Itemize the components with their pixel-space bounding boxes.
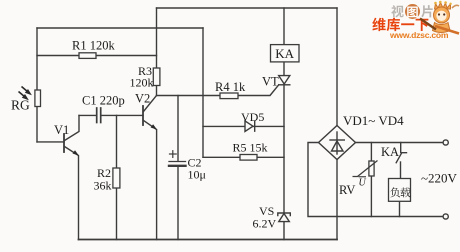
svg-text:6.2V: 6.2V (253, 217, 277, 231)
svg-text:U: U (359, 178, 367, 189)
svg-text:RV: RV (339, 183, 355, 197)
svg-text:R4 1k: R4 1k (215, 80, 246, 94)
svg-text:VD1~ VD4: VD1~ VD4 (343, 113, 404, 128)
svg-text:V2: V2 (135, 92, 150, 106)
svg-text:R5 15k: R5 15k (233, 141, 268, 155)
svg-text:RG: RG (11, 98, 30, 113)
svg-text:10μ: 10μ (188, 168, 206, 182)
svg-text:V1: V1 (54, 123, 69, 137)
svg-text:120k: 120k (130, 76, 154, 90)
svg-text:C1 220p: C1 220p (82, 94, 125, 108)
svg-text:VD5: VD5 (241, 110, 264, 124)
svg-text:R1 120k: R1 120k (72, 39, 115, 53)
svg-text:KA: KA (275, 46, 294, 61)
svg-text:KA: KA (381, 145, 399, 159)
svg-text:~220V: ~220V (421, 171, 458, 186)
svg-text:VT: VT (262, 75, 279, 89)
svg-text:36k: 36k (94, 179, 112, 193)
